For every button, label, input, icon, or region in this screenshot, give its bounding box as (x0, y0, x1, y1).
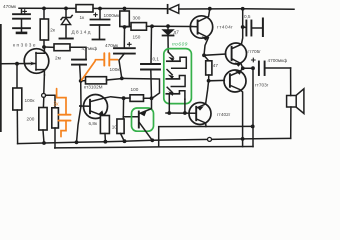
resistor R10 10 (117, 98, 124, 141)
node top rail x210 (208, 7, 212, 11)
capacitor C3 470mk (2nd) (114, 27, 135, 78)
resistor R6 2M (44, 44, 86, 60)
diode VD3 D7 (163, 26, 174, 52)
resistor R2 1k (76, 5, 93, 12)
node top rail x124 (123, 7, 127, 11)
resistor R12 200 (39, 108, 47, 144)
node x253 y126 (251, 125, 255, 129)
resistor R11 100k input bias (13, 64, 22, 144)
node x253 y68 (251, 66, 255, 70)
node top rail x100 (98, 7, 102, 11)
scan border left edge (0, 25, 2, 131)
svg-text:150: 150 (133, 35, 141, 40)
wire top supply rail (19, 7, 167, 10)
resistor R8 100 (124, 95, 152, 102)
node top rail x66 (64, 6, 68, 10)
wire interstage to base of VT4 (152, 25, 192, 27)
resistor R4 150 (125, 23, 153, 31)
capacitor C5 4700mkf (252, 58, 291, 95)
orange capacitor lower plates (59, 114, 71, 116)
node rail x152 (150, 138, 154, 142)
transistor VT6 gt703g (224, 69, 246, 139)
wire top rail right of diode (179, 8, 294, 10)
capacitor C2 1000mk (91, 9, 110, 40)
node rail x242 (241, 137, 245, 141)
svg-text:6,8к: 6,8к (89, 121, 99, 126)
svg-text:2к: 2к (54, 102, 60, 108)
svg-text:гт703г: гт703г (255, 83, 269, 88)
node x185 y113 (183, 111, 187, 115)
node x209 y81 (207, 79, 211, 83)
wire emitter line y126 (159, 126, 253, 146)
wire y78 to corner (122, 78, 160, 98)
svg-text:4700мкф: 4700мкф (268, 58, 288, 63)
wire output vertical to rail (252, 68, 254, 146)
node x152 y26 (150, 24, 154, 28)
svg-text:кп303е: кп303е (13, 43, 37, 48)
node x124 y27 (123, 25, 127, 29)
svg-text:10: 10 (112, 124, 118, 129)
node source ring x44 y95 (42, 93, 46, 97)
svg-text:1000мк: 1000мк (104, 13, 121, 18)
resistor R7 100k horizontal (81, 77, 122, 84)
orange capacitor 4.7mkf plates (103, 53, 105, 65)
node x124 y98 (122, 96, 126, 100)
svg-text:д7: д7 (174, 30, 180, 35)
wire base green box2 transistor (123, 116, 138, 118)
svg-text:по609: по609 (172, 42, 188, 47)
node x81 y81 (79, 79, 83, 83)
svg-text:2м: 2м (55, 56, 61, 61)
node x243 y27 (241, 25, 245, 29)
capacitor C1 470mk top-left (13, 8, 30, 33)
svg-text:100к: 100к (110, 67, 121, 72)
svg-text:0,1: 0,1 (153, 57, 160, 62)
node x204 y55 (202, 53, 206, 57)
node rail x44 (42, 141, 46, 145)
diode VD2 on top rail (168, 5, 179, 14)
orange wire diagonal to cap (82, 60, 104, 80)
node x168 y26 (166, 24, 170, 28)
transistor VT7 (added, in green box) (139, 98, 153, 140)
node input x17 (15, 62, 19, 66)
wire speaker return (253, 137, 291, 139)
resistor R13 source (black, 2k orange noted) (52, 108, 59, 148)
svg-text:200: 200 (27, 117, 35, 122)
svg-text:2к: 2к (50, 28, 56, 33)
resistor R9 6.8k (100, 116, 109, 142)
svg-text:470мк: 470мк (3, 4, 17, 9)
transistor VT5 gt705g (226, 27, 247, 68)
transistor VT1 kp303e JFET (24, 47, 49, 75)
svg-text:100к: 100к (25, 98, 36, 103)
node x243 y68 (241, 66, 245, 70)
svg-text:гт402г: гт402г (217, 112, 231, 117)
wire base VT6 (209, 79, 225, 81)
svg-text:гт404г: гт404г (217, 24, 233, 29)
orange jumper lower: wire (57, 89, 66, 114)
capacitor C6 (2M bypass) (72, 60, 86, 81)
node top rail x44 (42, 6, 46, 10)
annotation green box around diode stack (164, 49, 192, 104)
input wire left (0, 63, 30, 65)
wire bottom feedback line y147 (55, 147, 253, 148)
node x151 y98 (150, 96, 154, 100)
resistor R1 2k (40, 8, 48, 46)
annotation green box 2 (132, 108, 154, 131)
speaker BA1 (287, 89, 304, 139)
node top rail x243 (241, 7, 245, 11)
wire base VT2 from node (80, 81, 81, 106)
svg-text:47: 47 (213, 63, 219, 68)
resistor R3 300 (120, 9, 130, 28)
svg-text:кт3102М: кт3102М (84, 85, 103, 90)
node x169 y113 (167, 111, 171, 115)
svg-text:100: 100 (131, 87, 139, 92)
node rail x127 (123, 139, 127, 143)
terminal ring x209 (208, 137, 212, 141)
transistor VT2 kt3102M (80, 95, 124, 119)
rail bottom (18, 139, 253, 144)
zener diode VD1 D814d (60, 8, 73, 38)
node rail x105 (104, 140, 108, 144)
node drain x44 y47 (42, 45, 46, 49)
diode stack inside green box (166, 52, 186, 113)
svg-text:1к: 1к (80, 15, 86, 20)
capacitor C7 0.1 (141, 26, 160, 98)
orange wire cap to node (110, 59, 117, 61)
wire output node (243, 67, 253, 69)
wire source to R12/R13 (43, 75, 46, 93)
node rail x76 (75, 140, 79, 144)
svg-text:0,5: 0,5 (244, 14, 251, 19)
capacitor C4 0.5 + terminal (243, 9, 263, 36)
wire VT2 base leg to rail (77, 106, 82, 142)
wire base VT3 (166, 112, 196, 114)
svg-text:300: 300 (133, 16, 141, 21)
orange annotation group (54, 53, 118, 136)
transistor VT3 p402g (189, 81, 211, 127)
svg-text:Д814д: Д814д (72, 30, 92, 35)
svg-text:470мк: 470мк (105, 43, 119, 48)
node x122 y78 (120, 77, 124, 81)
svg-text:4,7мкф: 4,7мкф (82, 46, 98, 51)
svg-text:гт705г: гт705г (248, 49, 262, 54)
wire riser x242 to bottom line (242, 139, 244, 147)
transistor VT4 p404g (190, 9, 212, 56)
resistor R5 47 (204, 55, 212, 81)
orange wire lower to rail (61, 121, 66, 137)
wire base VT5 (204, 54, 226, 55)
